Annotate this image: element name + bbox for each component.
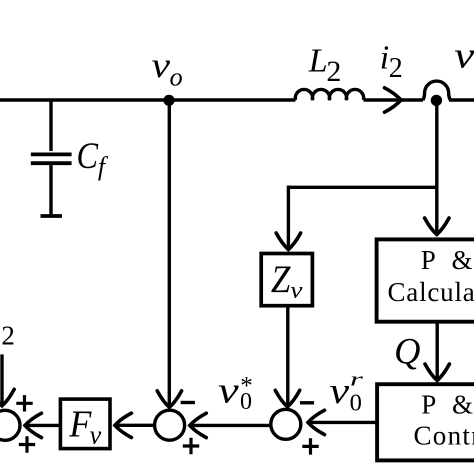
svg-text:2: 2 — [389, 53, 403, 84]
svg-text:2: 2 — [1, 321, 15, 351]
svg-text:v: v — [290, 277, 302, 304]
svg-text:Calculation: Calculation — [388, 277, 474, 307]
svg-text:0: 0 — [350, 389, 362, 416]
svg-text:P & Q: P & Q — [421, 389, 474, 419]
svg-text:L: L — [308, 42, 328, 79]
svg-text:o: o — [170, 62, 183, 92]
svg-text:v: v — [90, 421, 102, 450]
svg-text:*: * — [240, 373, 253, 400]
svg-text:P & Q: P & Q — [421, 245, 474, 275]
svg-text:Control: Control — [414, 421, 474, 451]
svg-text:r: r — [350, 370, 364, 391]
svg-text:F: F — [68, 403, 92, 445]
svg-text:C: C — [77, 136, 100, 177]
svg-text:f: f — [98, 152, 109, 181]
svg-text:v: v — [330, 371, 350, 412]
svg-text:v: v — [152, 45, 171, 85]
svg-text:2: 2 — [326, 55, 341, 88]
svg-text:Q: Q — [394, 331, 420, 372]
svg-text:Z: Z — [271, 258, 292, 301]
svg-text:v: v — [218, 371, 239, 412]
svg-text:v: v — [454, 36, 474, 77]
